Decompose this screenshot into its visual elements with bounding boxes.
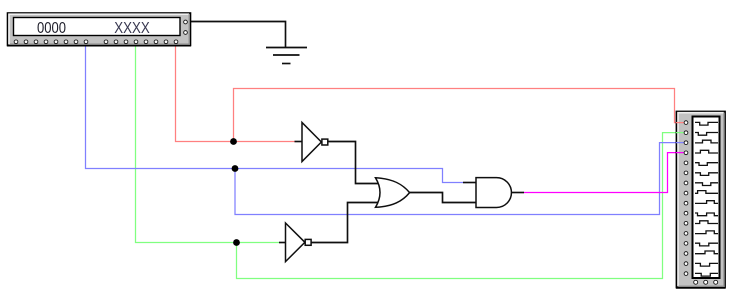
svg-text:XXXX: XXXX [114, 20, 150, 37]
svg-text:0000: 0000 [37, 20, 66, 37]
